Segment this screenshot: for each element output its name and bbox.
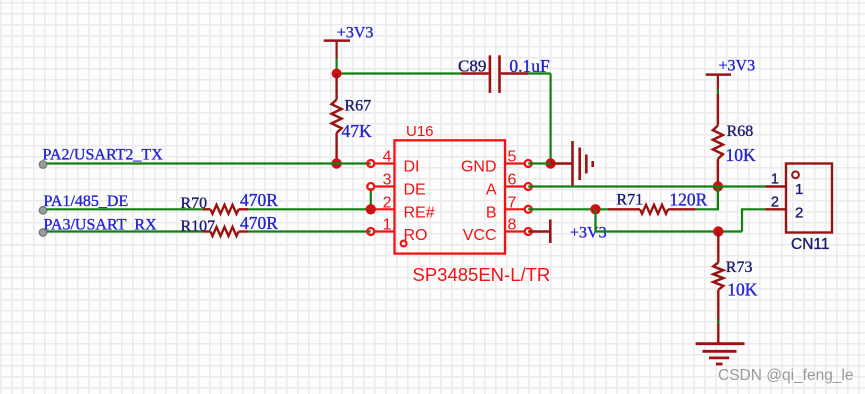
svg-text:1: 1	[771, 172, 779, 188]
power +3V3 (left)	[324, 25, 374, 60]
svg-text:3: 3	[383, 172, 392, 189]
wire	[47, 230, 204, 232]
wire	[717, 89, 719, 95]
capacitor C89	[458, 55, 528, 93]
svg-text:10K: 10K	[726, 145, 757, 165]
svg-text:+3V3: +3V3	[337, 25, 374, 42]
svg-text:RE#: RE#	[404, 205, 435, 222]
svg-text:DE: DE	[404, 182, 426, 199]
wire (lower B run)	[596, 230, 743, 232]
wire (GND pin to junction)	[528, 162, 550, 164]
power +3V3 (VCC pin 8)	[528, 220, 606, 244]
svg-text:47K: 47K	[342, 121, 373, 141]
CN11 pin 1	[766, 172, 804, 199]
svg-text:10K: 10K	[727, 280, 758, 300]
svg-text:DI: DI	[404, 159, 420, 176]
svg-text:120R: 120R	[669, 189, 707, 209]
svg-text:B: B	[486, 205, 497, 222]
ground (earth, bottom)	[696, 344, 745, 364]
connector CN11 box	[786, 164, 832, 254]
svg-text:R73: R73	[726, 259, 753, 276]
svg-text:PA2/USART2_TX: PA2/USART2_TX	[43, 147, 164, 164]
svg-text:1: 1	[383, 217, 392, 234]
wire (B line to junction)	[528, 208, 610, 210]
wire	[337, 72, 461, 74]
svg-text:R107: R107	[181, 218, 216, 235]
wire	[47, 208, 204, 210]
U16 pin 1 RO	[367, 217, 427, 247]
wire (A line)	[528, 185, 765, 187]
svg-text:GND: GND	[461, 159, 497, 176]
svg-text:A: A	[486, 182, 497, 199]
svg-text:7: 7	[508, 194, 517, 211]
wire	[248, 208, 371, 210]
svg-text:R68: R68	[727, 123, 754, 140]
wire	[336, 58, 338, 74]
svg-text:8: 8	[508, 217, 517, 234]
wire	[549, 74, 551, 164]
CN11 pin 2	[766, 195, 804, 222]
wire (R71 to A junction)	[696, 187, 718, 210]
U16 pin 5 GND	[461, 149, 532, 176]
wire	[47, 162, 371, 164]
svg-text:R71: R71	[616, 192, 643, 209]
resistor R68	[713, 94, 753, 187]
junction (RE# pin)	[366, 204, 376, 214]
svg-text:+3V3: +3V3	[570, 225, 607, 242]
junction	[332, 69, 342, 79]
U16 pin 4 DI	[367, 149, 419, 176]
wire (B down)	[594, 209, 596, 231]
svg-text:470R: 470R	[240, 213, 278, 233]
resistor R73	[713, 232, 752, 344]
port PA2/USART2_TX	[39, 147, 163, 169]
svg-text:1: 1	[795, 181, 803, 198]
svg-text:RO: RO	[404, 227, 428, 244]
junction (B line)	[590, 204, 600, 214]
port PA1/485_DE	[39, 193, 128, 214]
svg-text:R67: R67	[345, 98, 372, 115]
svg-text:+3V3: +3V3	[719, 58, 756, 75]
wire (up to CN11 pin 2)	[742, 209, 766, 231]
resistor R67	[332, 74, 372, 164]
svg-text:470R: 470R	[240, 190, 278, 210]
U16 pin 8 VCC	[463, 217, 532, 245]
svg-text:2: 2	[383, 194, 392, 211]
junction (R73 top)	[713, 226, 723, 236]
resistor R71	[608, 192, 696, 214]
wire	[528, 72, 551, 74]
junction	[545, 158, 555, 168]
svg-text:C89: C89	[458, 57, 486, 76]
wire	[717, 320, 719, 324]
svg-text:SP3485EN-L/TR: SP3485EN-L/TR	[413, 264, 551, 285]
svg-text:R70: R70	[181, 195, 208, 212]
svg-text:4: 4	[383, 149, 392, 166]
svg-text:PA1/485_DE: PA1/485_DE	[44, 193, 129, 210]
U16 pin 2 RE#	[367, 194, 434, 221]
svg-text:5: 5	[508, 149, 517, 166]
power ground (right of GND pin)	[551, 141, 593, 186]
svg-text:U16: U16	[406, 123, 434, 140]
junction (A line)	[713, 181, 723, 191]
svg-text:VCC: VCC	[463, 227, 497, 244]
wire (DE to RE# tie)	[370, 188, 372, 209]
U16 pin 6 A	[486, 172, 532, 199]
svg-text:2: 2	[795, 205, 803, 222]
svg-text:2: 2	[771, 195, 779, 211]
wire	[248, 230, 371, 232]
svg-text:CSDN @qi_feng_le: CSDN @qi_feng_le	[718, 367, 854, 384]
resistor R70	[181, 195, 249, 214]
svg-text:6: 6	[508, 172, 517, 189]
IC U16 box	[395, 123, 506, 254]
U16 pin 7 B	[486, 194, 532, 221]
resistor R107	[181, 218, 249, 236]
port PA3/USART_RX	[39, 217, 157, 237]
power +3V3 (right, above R68)	[706, 58, 755, 91]
U16 pin 3 DE	[367, 172, 425, 199]
svg-text:CN11: CN11	[791, 236, 829, 253]
junction	[331, 158, 341, 168]
